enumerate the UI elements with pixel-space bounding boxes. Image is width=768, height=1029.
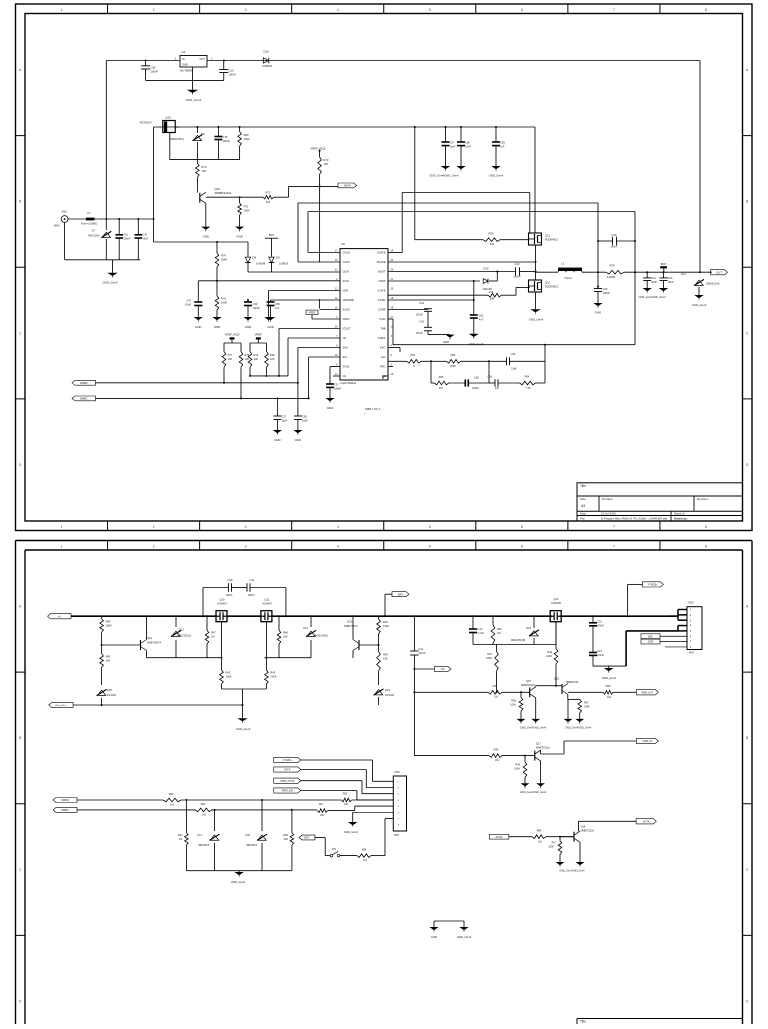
svg-text:MM1Z15V(B): MM1Z15V(B)	[511, 639, 525, 642]
svg-text:PWR_OUT: PWR_OUT	[641, 691, 653, 694]
svg-text:100: 100	[202, 813, 207, 816]
svg-text:R63: R63	[178, 834, 183, 837]
svg-text:C44: C44	[419, 301, 424, 305]
svg-text:D13: D13	[526, 626, 531, 630]
svg-text:GND_Gen4GND_Gen4: GND_Gen4GND_Gen4	[638, 295, 666, 299]
svg-text:Q16: Q16	[554, 677, 559, 681]
svg-text:100nF: 100nF	[603, 291, 611, 295]
svg-text:C38: C38	[228, 578, 233, 582]
svg-text:GND_Gen4: GND_Gen4	[692, 303, 707, 307]
svg-text:MC78M05: MC78M05	[180, 69, 193, 73]
svg-text:D19: D19	[385, 688, 390, 692]
svg-text:33nF: 33nF	[142, 237, 148, 241]
svg-text:U8: U8	[341, 242, 345, 246]
svg-text:R49: R49	[515, 763, 520, 766]
svg-text:L1: L1	[561, 262, 565, 266]
svg-text:4: 4	[337, 544, 339, 548]
svg-text:6: 6	[521, 8, 523, 12]
svg-text:VREF_RQ5: VREF_RQ5	[310, 146, 326, 150]
svg-text:R59: R59	[606, 684, 611, 688]
svg-text:4: 4	[337, 525, 339, 529]
svg-text:R71: R71	[244, 205, 249, 209]
svg-text:100: 100	[170, 803, 175, 806]
svg-text:1N4148: 1N4148	[107, 694, 116, 697]
svg-text:Sheet of: Sheet of	[674, 512, 685, 516]
svg-text:C59: C59	[500, 141, 505, 145]
svg-text:R51: R51	[487, 653, 492, 656]
svg-text:BAT: BAT	[648, 635, 653, 638]
svg-text:C34: C34	[597, 649, 602, 653]
svg-text:2: 2	[153, 525, 155, 529]
svg-text:R57: R57	[584, 701, 589, 704]
svg-text:B: B	[19, 736, 21, 740]
svg-text:R70: R70	[323, 158, 328, 162]
svg-text:Q18: Q18	[581, 826, 586, 829]
svg-text:R41: R41	[106, 655, 111, 659]
svg-text:100nF: 100nF	[610, 245, 618, 249]
svg-text:8: 8	[705, 8, 707, 12]
svg-text:C30: C30	[612, 233, 617, 237]
svg-text:C40: C40	[603, 287, 608, 291]
svg-text:1N5819: 1N5819	[262, 64, 272, 68]
svg-text:A5VK: A5VK	[344, 184, 351, 188]
svg-text:Revision: Revision	[697, 497, 709, 501]
svg-text:4k7: 4k7	[439, 386, 444, 390]
svg-text:DCIN: DCIN	[343, 270, 349, 274]
svg-text:100: 100	[344, 803, 349, 806]
svg-text:GND_Gen4: GND_Gen4	[186, 98, 202, 102]
svg-text:Q19: Q19	[165, 116, 171, 120]
svg-text:7: 7	[613, 8, 615, 12]
svg-text:C11: C11	[250, 578, 255, 582]
svg-text:33uF: 33uF	[651, 280, 657, 284]
svg-text:5: 5	[429, 544, 431, 548]
svg-text:P-SCB+: P-SCB+	[283, 759, 293, 762]
svg-text:AOD407: AOD407	[262, 602, 273, 606]
svg-text:100nF: 100nF	[418, 652, 426, 655]
svg-text:1: 1	[61, 544, 63, 548]
svg-text:BAT: BAT	[661, 262, 667, 266]
svg-text:100K: 100K	[221, 301, 227, 305]
svg-text:D7: D7	[92, 229, 96, 233]
svg-text:5: 5	[429, 8, 431, 12]
svg-text:C41: C41	[651, 276, 656, 280]
svg-text:GND: GND	[431, 935, 437, 939]
svg-text:GND_Gen4GND_Gen4: GND_Gen4GND_Gen4	[520, 791, 547, 794]
svg-text:330nF: 330nF	[123, 237, 131, 241]
svg-text:Q13: Q13	[347, 620, 353, 624]
svg-text:12-Jul-2010: 12-Jul-2010	[601, 512, 616, 516]
svg-text:AOD407: AOD407	[217, 602, 228, 606]
svg-text:Q20: Q20	[215, 187, 221, 191]
svg-text:8: 8	[705, 525, 707, 529]
svg-text:5VTK: 5VTK	[284, 769, 291, 772]
svg-text:100nF: 100nF	[253, 306, 261, 310]
svg-text:10K: 10K	[106, 659, 111, 663]
svg-text:R74: R74	[221, 254, 226, 258]
svg-text:100nF: 100nF	[597, 624, 605, 627]
svg-text:C17: C17	[334, 383, 339, 387]
svg-text:A3: A3	[581, 504, 585, 508]
svg-text:C57: C57	[450, 141, 455, 145]
svg-text:1: 1	[61, 525, 63, 529]
svg-text:CN2: CN2	[61, 210, 67, 214]
svg-text:EAO: EAO	[380, 346, 385, 350]
svg-text:GND_Gen4GND_Gen4: GND_Gen4GND_Gen4	[560, 870, 586, 873]
svg-text:GND: GND	[648, 641, 654, 644]
svg-text:C20: C20	[668, 276, 673, 280]
svg-text:SMBT2907A: SMBT2907A	[344, 625, 358, 628]
svg-text:C54: C54	[487, 376, 492, 379]
svg-text:File:: File:	[580, 516, 586, 520]
svg-text:MMBT2222A: MMBT2222A	[581, 830, 595, 833]
svg-text:7: 7	[613, 525, 615, 529]
svg-text:100nF: 100nF	[597, 654, 605, 657]
svg-text:PRO: PRO	[380, 365, 386, 369]
svg-text:2: 2	[153, 8, 155, 12]
svg-text:F1: F1	[87, 211, 91, 215]
svg-text:3: 3	[245, 8, 247, 12]
svg-text:R45: R45	[383, 620, 388, 624]
svg-text:GND: GND	[443, 340, 449, 344]
svg-text:Q11: Q11	[545, 234, 550, 238]
svg-text:140K: 140K	[584, 705, 590, 708]
svg-text:2: 2	[153, 544, 155, 548]
svg-text:100nF: 100nF	[229, 73, 237, 77]
svg-text:51pF: 51pF	[511, 368, 517, 371]
svg-text:R49: R49	[547, 651, 552, 654]
svg-text:GND_Gen4: GND_Gen4	[231, 880, 246, 884]
svg-text:VREF: VREF	[343, 317, 350, 321]
svg-text:100K: 100K	[548, 845, 554, 848]
svg-text:R63: R63	[439, 375, 444, 379]
svg-text:Q12: Q12	[553, 597, 559, 601]
svg-text:GND: GND	[343, 289, 349, 293]
svg-text:100K: 100K	[546, 655, 552, 658]
svg-text:10R: 10R	[490, 298, 495, 301]
svg-text:10K: 10K	[254, 358, 259, 361]
svg-text:BZconRect: BZconRect	[55, 704, 66, 707]
svg-text:GND_Gen4: GND_Gen4	[457, 935, 472, 939]
svg-text:GND_Gen4: GND_Gen4	[602, 676, 617, 680]
svg-text:C32: C32	[597, 619, 602, 623]
svg-text:C61: C61	[123, 233, 128, 237]
svg-text:GND: GND	[182, 62, 188, 66]
svg-text:COMP: COMP	[378, 308, 386, 312]
svg-text:SDA: SDA	[343, 346, 349, 350]
svg-text:GND: GND	[214, 325, 220, 329]
svg-text:MM3Z6V8: MM3Z6V8	[198, 845, 209, 847]
svg-text:200K: 200K	[450, 364, 456, 368]
svg-text:100nF: 100nF	[416, 332, 424, 335]
svg-text:1N4148: 1N4148	[256, 262, 266, 266]
svg-text:150: 150	[283, 634, 288, 638]
svg-text:C12: C12	[478, 627, 483, 631]
svg-text:100K: 100K	[226, 675, 232, 679]
svg-text:OUT: OUT	[200, 57, 206, 61]
svg-text:C56: C56	[151, 65, 156, 69]
svg-text:C53: C53	[511, 352, 516, 356]
svg-text:R77: R77	[228, 354, 233, 357]
svg-text:GND_Gen4: GND_Gen4	[102, 281, 117, 285]
svg-text:100nF: 100nF	[247, 594, 255, 597]
svg-text:R43: R43	[270, 671, 275, 675]
svg-text:D18: D18	[245, 834, 250, 837]
svg-text:R60: R60	[169, 793, 174, 796]
svg-text:SMBD: SMBD	[80, 381, 88, 385]
svg-text:3: 3	[245, 525, 247, 529]
svg-text:SMBC: SMBC	[80, 397, 88, 401]
svg-text:10nF: 10nF	[185, 303, 191, 307]
svg-text:CXON: CXON	[343, 251, 351, 255]
svg-text:Q15: Q15	[526, 679, 531, 683]
svg-text:R68: R68	[362, 849, 367, 852]
svg-text:R46: R46	[494, 747, 499, 751]
svg-text:6: 6	[521, 544, 523, 548]
svg-text:R67: R67	[319, 803, 324, 806]
svg-text:100nF: 100nF	[416, 313, 424, 316]
svg-text:PGND: PGND	[378, 298, 386, 302]
svg-text:C42: C42	[419, 320, 424, 324]
svg-text:100nF: 100nF	[151, 69, 159, 73]
svg-text:CN3: CN3	[688, 601, 694, 605]
svg-text:MM1Z15(V): MM1Z15(V)	[170, 137, 184, 141]
svg-text:BAT: BAT	[398, 592, 403, 596]
svg-text:2nF: 2nF	[495, 387, 500, 390]
svg-text:VICM: VICM	[343, 365, 349, 369]
svg-text:C61: C61	[479, 314, 484, 318]
svg-text:D12: D12	[179, 628, 184, 632]
svg-text:10pF: 10pF	[302, 419, 308, 423]
svg-text:R49: R49	[383, 653, 388, 657]
svg-text:D9: D9	[276, 256, 280, 260]
svg-text:100K: 100K	[486, 657, 492, 660]
svg-text:ICREF: ICREF	[378, 336, 386, 340]
svg-text:BAT: BAT	[305, 837, 310, 840]
svg-text:1M: 1M	[497, 631, 501, 635]
svg-text:GND_Gen4GND_Gen4: GND_Gen4GND_Gen4	[520, 727, 547, 730]
svg-text:GND_Gen4: GND_Gen4	[469, 342, 484, 346]
svg-text:MNT: MNT	[394, 834, 400, 837]
svg-text:MNT: MNT	[689, 652, 695, 655]
svg-text:R42: R42	[226, 671, 231, 675]
svg-text:R79: R79	[254, 354, 259, 357]
svg-text:GND: GND	[295, 438, 301, 442]
svg-text:3: 3	[245, 544, 247, 548]
svg-text:1M: 1M	[211, 634, 215, 638]
svg-text:ACOK: ACOK	[496, 836, 503, 839]
svg-text:1M: 1M	[179, 838, 182, 841]
svg-text:MM3Z6V8: MM3Z6V8	[246, 845, 257, 847]
svg-text:R65: R65	[343, 792, 348, 795]
svg-text:VREF: VREF	[309, 311, 316, 315]
svg-text:CSIN: CSIN	[379, 317, 385, 321]
svg-text:B: B	[746, 736, 748, 740]
svg-text:Q14: Q14	[147, 636, 153, 640]
svg-text:D17: D17	[197, 834, 202, 837]
svg-text:MMBT2222A: MMBT2222A	[521, 684, 535, 687]
svg-text:MMBT2222: MMBT2222	[566, 681, 579, 684]
svg-text:R62: R62	[201, 803, 206, 806]
svg-text:C47: C47	[186, 299, 191, 303]
svg-text:R79: R79	[610, 264, 615, 268]
svg-text:B: B	[19, 200, 21, 204]
svg-text:ON: ON	[441, 667, 445, 671]
svg-text:R69: R69	[244, 133, 249, 137]
svg-text:SMMBT2222A: SMMBT2222A	[215, 191, 232, 195]
svg-text:VDDSMB: VDDSMB	[343, 298, 354, 302]
svg-text:620K: 620K	[221, 258, 227, 262]
svg-text:6: 6	[521, 525, 523, 529]
svg-text:C76: C76	[223, 135, 228, 139]
svg-text:D18: D18	[107, 688, 112, 692]
svg-text:OUT: OUT	[716, 270, 722, 274]
svg-text:Date: Date	[580, 512, 586, 516]
svg-text:SMBT2907A: SMBT2907A	[147, 642, 162, 645]
svg-text:100K: 100K	[383, 624, 389, 628]
svg-text:10K: 10K	[228, 358, 233, 361]
svg-text:10k: 10k	[266, 200, 271, 204]
svg-text:PHASE: PHASE	[377, 260, 386, 264]
svg-text:+V: +V	[58, 614, 62, 618]
svg-text:R62: R62	[451, 353, 456, 357]
svg-text:MM1Z15V(C): MM1Z15V(C)	[177, 634, 192, 637]
svg-text:Size: Size	[580, 497, 586, 501]
svg-text:bq24745RHA: bq24745RHA	[341, 381, 357, 385]
svg-text:1: 1	[61, 8, 63, 12]
svg-text:4: 4	[337, 8, 339, 12]
svg-text:GND: GND	[274, 438, 280, 442]
svg-text:CXOP: CXOP	[343, 260, 351, 264]
svg-text:B: B	[746, 200, 748, 204]
svg-text:1N4148: 1N4148	[385, 694, 394, 697]
svg-text:GND_Gen4: GND_Gen4	[236, 727, 251, 731]
svg-text:R44: R44	[106, 620, 111, 624]
svg-text:10K: 10K	[270, 358, 275, 361]
svg-text:4.7uF: 4.7uF	[478, 632, 485, 635]
svg-text:VREF: VREF	[255, 333, 263, 337]
svg-text:SMAZ12(A): SMAZ12(A)	[706, 282, 720, 286]
svg-text:150pF: 150pF	[472, 387, 480, 390]
svg-text:D13: D13	[681, 272, 686, 276]
svg-text:GND: GND	[327, 406, 333, 410]
svg-text:R67: R67	[552, 841, 557, 844]
svg-text:C38: C38	[302, 415, 307, 419]
svg-text:100nF: 100nF	[223, 139, 231, 143]
svg-text:100: 100	[320, 814, 325, 817]
svg-text:10pF: 10pF	[281, 419, 287, 423]
svg-text:BAT: BAT	[269, 233, 275, 237]
svg-text:MMBT2222a: MMBT2222a	[536, 747, 550, 750]
svg-text:5: 5	[429, 525, 431, 529]
svg-text:SMBD: SMBD	[61, 798, 69, 802]
svg-text:GND: GND	[245, 325, 251, 329]
svg-text:8: 8	[705, 544, 707, 548]
svg-text:R56: R56	[511, 699, 516, 702]
svg-text:R60: R60	[489, 232, 494, 236]
svg-text:R64: R64	[525, 375, 530, 379]
svg-text:D6: D6	[201, 132, 205, 136]
svg-text:BNC: BNC	[54, 224, 60, 228]
svg-text:10k: 10k	[490, 242, 495, 246]
svg-text:MM1Z15V(B): MM1Z15V(B)	[314, 634, 328, 637]
svg-text:R47: R47	[211, 630, 216, 634]
svg-text:R54: R54	[493, 684, 498, 688]
svg-text:Q10: Q10	[219, 598, 225, 602]
svg-text:SCL: SCL	[343, 355, 349, 359]
svg-text:100K: 100K	[270, 675, 276, 679]
svg-text:C31: C31	[418, 647, 423, 651]
svg-text:Q17: Q17	[536, 742, 541, 746]
svg-text:NC: NC	[343, 374, 347, 378]
svg-text:7: 7	[613, 544, 615, 548]
svg-text:C37: C37	[281, 415, 286, 419]
svg-text:R73: R73	[201, 165, 206, 169]
svg-text:100nF: 100nF	[225, 594, 233, 597]
svg-text:GND: GND	[195, 325, 201, 329]
svg-text:1N5819: 1N5819	[279, 262, 289, 266]
svg-text:Fuse-rd SMB1: Fuse-rd SMB1	[81, 223, 98, 226]
svg-text:R76: R76	[221, 297, 226, 301]
svg-text:THB: THB	[380, 327, 385, 331]
svg-text:5.6uH: 5.6uH	[564, 276, 571, 280]
svg-text:P-SCB+: P-SCB+	[648, 584, 658, 587]
svg-text:SMB 1 OF 1: SMB 1 OF 1	[365, 407, 381, 411]
svg-text:D:\Program files\..PMCU-S 707_: D:\Program files\..PMCU-S 707_ACMU-...CH…	[601, 516, 668, 520]
svg-text:Q11: Q11	[265, 598, 270, 602]
svg-text:1uF: 1uF	[500, 145, 505, 149]
svg-text:D16: D16	[263, 50, 269, 54]
svg-text:C10: C10	[229, 69, 234, 73]
svg-text:C56: C56	[474, 376, 479, 380]
svg-text:1uF: 1uF	[275, 306, 280, 310]
svg-text:C43: C43	[515, 262, 520, 266]
svg-text:GND_Gen4GND_Gen4: GND_Gen4GND_Gen4	[429, 174, 459, 178]
svg-text:IN: IN	[182, 57, 185, 61]
svg-text:R48: R48	[283, 630, 288, 634]
svg-text:100K: 100K	[244, 209, 250, 213]
svg-text:GND: GND	[595, 311, 601, 315]
svg-text:C49: C49	[253, 302, 258, 306]
svg-text:D14: D14	[303, 626, 308, 630]
svg-text:SMBC: SMBC	[61, 808, 69, 812]
svg-text:VDDP: VDDP	[378, 279, 385, 283]
svg-text:R64: R64	[537, 830, 542, 833]
svg-text:CN5: CN5	[394, 770, 400, 774]
svg-text:0.033R: 0.033R	[607, 275, 615, 279]
svg-text:100nF: 100nF	[513, 275, 521, 279]
svg-text:LGATE: LGATE	[377, 289, 386, 293]
svg-text:ACIN: ACIN	[343, 279, 349, 283]
svg-text:CE: CE	[343, 336, 347, 340]
svg-text:C42: C42	[142, 233, 147, 237]
svg-text:R61: R61	[411, 353, 416, 357]
svg-text:PWR_IN5: PWR_IN5	[282, 790, 294, 793]
svg-text:C50: C50	[275, 302, 280, 306]
svg-text:Drawn by:: Drawn by:	[674, 516, 688, 520]
svg-text:10K: 10K	[383, 657, 388, 661]
svg-text:4n7: 4n7	[479, 318, 484, 322]
svg-text:10K: 10K	[323, 162, 328, 166]
svg-text:R72: R72	[266, 191, 271, 195]
svg-text:R80: R80	[270, 354, 275, 357]
svg-text:R66: R66	[283, 834, 288, 837]
svg-text:GND_Gen4: GND_Gen4	[529, 318, 544, 322]
svg-text:ICOUT: ICOUT	[343, 327, 351, 331]
svg-text:VREF_RQ5: VREF_RQ5	[225, 333, 240, 337]
svg-text:UGATE: UGATE	[377, 251, 386, 255]
svg-text:GND: GND	[203, 235, 209, 239]
